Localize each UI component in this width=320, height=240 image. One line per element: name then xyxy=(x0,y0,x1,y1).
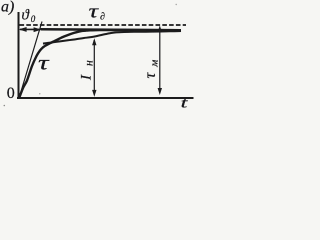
svg-text:∂: ∂ xyxy=(100,12,105,23)
dashed asymptote line theta0 level xyxy=(20,24,187,26)
second slower curve xyxy=(43,31,181,44)
right arrow top head xyxy=(158,25,162,32)
t-axis xyxy=(17,97,194,99)
mid arrow bottom head xyxy=(92,90,96,97)
middle vertical double arrow shaft xyxy=(93,40,95,95)
svg-text:τ: τ xyxy=(89,2,100,23)
svg-text:0: 0 xyxy=(31,14,36,24)
horizontal double arrow shaft (time constant) xyxy=(20,28,39,30)
scan speck near curve foot xyxy=(39,93,40,94)
solid steady-state line xyxy=(41,29,182,30)
tangent line at origin xyxy=(20,22,43,97)
mid arrow top head xyxy=(92,38,96,45)
heating curve tau(t) main xyxy=(20,30,182,97)
scan speck top-right xyxy=(176,4,177,5)
scan speck bottom-left xyxy=(4,105,6,107)
svg-text:τ: τ xyxy=(38,53,50,75)
svg-text:t: t xyxy=(181,95,188,109)
h-arrow left head xyxy=(19,27,27,32)
h-arrow right head xyxy=(34,27,42,32)
svg-text:0: 0 xyxy=(7,85,15,102)
right vertical double arrow shaft xyxy=(159,28,161,93)
right arrow bottom head xyxy=(158,88,162,95)
background paper xyxy=(0,0,197,109)
svg-text:а): а) xyxy=(1,0,14,16)
y-axis xyxy=(18,12,20,99)
